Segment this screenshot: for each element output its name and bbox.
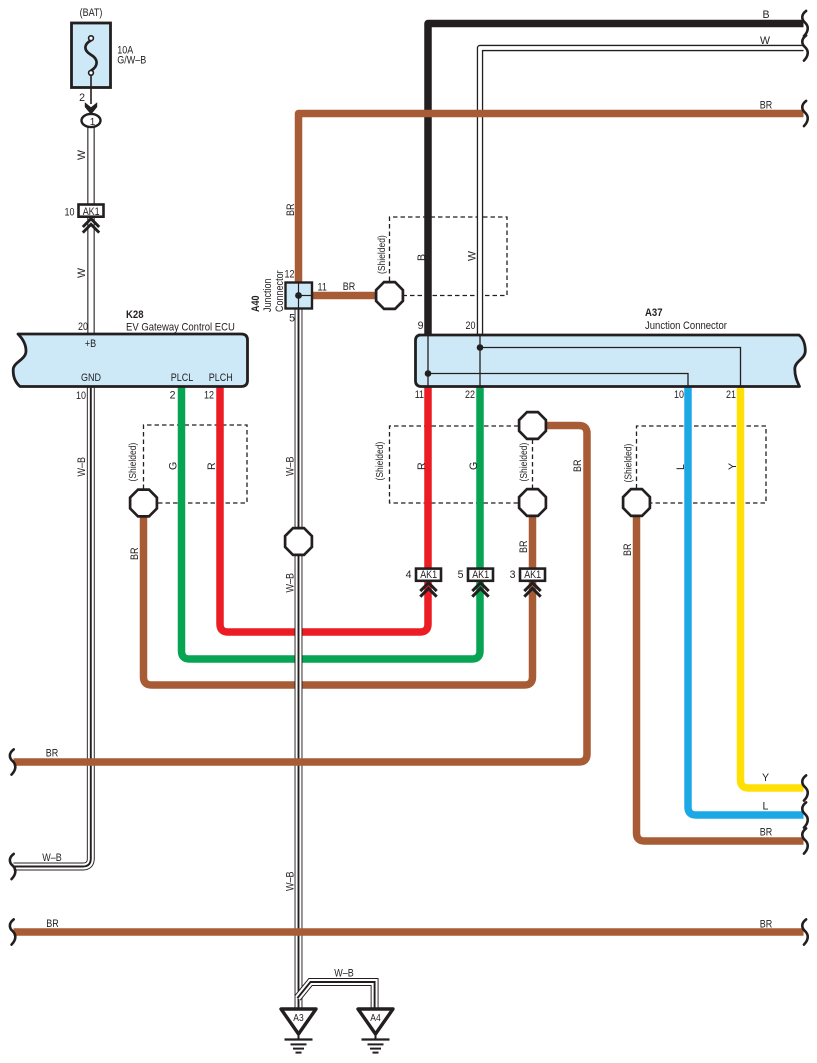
svg-text:2: 2 — [79, 92, 85, 104]
svg-text:W–B: W–B — [285, 872, 297, 892]
fuse (BAT) 10A — [72, 23, 111, 104]
svg-text:BR: BR — [760, 827, 773, 839]
svg-text:4: 4 — [406, 569, 412, 581]
octagon shield mid-bottom — [519, 489, 546, 516]
break left BR bottom — [10, 919, 15, 944]
svg-text:9: 9 — [418, 320, 424, 332]
break right B — [802, 11, 807, 36]
wire BR A40 to shield octagon — [312, 292, 378, 300]
break right W — [802, 35, 807, 60]
svg-text:10: 10 — [76, 390, 86, 402]
svg-text:EV Gateway Control ECU: EV Gateway Control ECU — [126, 322, 235, 334]
svg-text:(Shielded): (Shielded) — [624, 444, 635, 483]
break left W-B — [10, 854, 15, 879]
svg-text:(Shielded): (Shielded) — [377, 235, 388, 274]
shield dashed link between octagons — [532, 440, 534, 489]
shield box (Shielded) right under A37 — [637, 426, 767, 503]
svg-text:A4: A4 — [370, 1013, 381, 1024]
svg-text:10: 10 — [674, 389, 684, 401]
svg-text:AK1: AK1 — [83, 206, 100, 218]
svg-text:Junction Connector: Junction Connector — [645, 320, 727, 332]
svg-text:BR: BR — [343, 281, 356, 293]
octagon shield mid-top — [519, 412, 546, 439]
svg-text:G/W–B: G/W–B — [117, 55, 146, 67]
svg-text:W: W — [76, 150, 88, 160]
junction connector A40 — [286, 283, 313, 309]
wire B thick black top — [428, 24, 804, 336]
svg-text:+B: +B — [85, 338, 96, 350]
svg-text:5: 5 — [289, 313, 295, 325]
svg-text:20: 20 — [78, 321, 88, 333]
svg-text:L: L — [675, 464, 687, 470]
svg-text:K28: K28 — [126, 309, 144, 321]
connector 5 AK1 — [468, 569, 493, 597]
svg-text:1: 1 — [90, 117, 96, 128]
svg-text:22: 22 — [465, 389, 475, 401]
svg-text:A40: A40 — [250, 295, 262, 312]
svg-text:BR: BR — [129, 547, 141, 560]
octagon shield right — [623, 489, 650, 516]
svg-text:Junction: Junction — [262, 278, 274, 312]
ground A4 — [358, 1009, 393, 1053]
svg-text:BR: BR — [622, 543, 634, 556]
svg-text:W: W — [760, 35, 770, 47]
break right Y — [802, 775, 807, 800]
svg-text:(Shielded): (Shielded) — [519, 443, 530, 482]
svg-text:B: B — [762, 9, 769, 21]
svg-text:12: 12 — [204, 390, 214, 402]
wire BR from right edge to A40 — [299, 114, 804, 283]
svg-text:W–B: W–B — [285, 573, 297, 593]
svg-text:W: W — [467, 251, 479, 261]
A37 internal links — [428, 335, 741, 386]
junction connector A37 block — [416, 335, 806, 387]
wire BR loop octagon3 to octagon1 — [144, 515, 533, 685]
svg-text:BR: BR — [46, 748, 59, 760]
svg-text:B: B — [416, 254, 428, 261]
svg-text:BR: BR — [572, 459, 584, 472]
ellipse connector 1 — [82, 114, 101, 127]
svg-text:2: 2 — [170, 390, 176, 402]
svg-text:R: R — [416, 462, 428, 470]
shield box (Shielded) left under K28 — [144, 425, 248, 503]
arrow pin2 — [85, 102, 97, 114]
connector 10 AK1 — [79, 205, 104, 233]
svg-text:12: 12 — [285, 269, 295, 281]
svg-text:11: 11 — [318, 282, 327, 294]
svg-text:G: G — [168, 462, 180, 470]
svg-text:Y: Y — [762, 772, 769, 784]
svg-text:W–B: W–B — [285, 457, 297, 477]
break right BR mid — [802, 828, 807, 853]
svg-text:3: 3 — [510, 569, 516, 581]
svg-text:BR: BR — [518, 540, 530, 553]
ECU K28 block — [13, 334, 247, 387]
octagon shield left — [130, 490, 157, 517]
svg-text:Y: Y — [727, 463, 739, 470]
svg-text:BR: BR — [46, 918, 59, 930]
connector 3 AK1 — [520, 569, 545, 597]
svg-text:BR: BR — [760, 919, 773, 931]
wire Y yellow A37 pin21 to right edge — [741, 386, 804, 788]
node dot pin9 link — [425, 370, 432, 377]
wire W white double-line top — [480, 48, 804, 335]
wire BR octagon4 to right edge — [637, 515, 804, 841]
break right BR bottom — [802, 919, 807, 944]
svg-text:L: L — [763, 801, 769, 813]
svg-text:A37: A37 — [645, 307, 663, 319]
svg-text:20: 20 — [466, 320, 476, 332]
wire L blue A37 pin10 to right edge — [688, 386, 804, 815]
svg-text:GND: GND — [81, 372, 101, 384]
shield box (Shielded) top middle around B/W wires — [390, 217, 508, 296]
svg-text:BR: BR — [285, 203, 297, 216]
connector 4 AK1 — [416, 569, 441, 597]
svg-text:R: R — [206, 462, 218, 470]
break left BR — [10, 749, 15, 774]
octagon shield on W-B wire — [285, 528, 312, 555]
break right BR top — [802, 101, 807, 126]
break right L — [802, 802, 807, 827]
svg-text:AK1: AK1 — [472, 569, 489, 581]
wire W-B branch to ground A4 — [298, 982, 375, 1009]
wire W-B from K28 GND to left edge — [14, 387, 91, 867]
wire W-B from A40 pin5 down to ground A3 — [295, 309, 303, 1010]
wire G loop K28 PLCL to A37 pin22 — [182, 386, 481, 659]
octagon shield A40-BR — [376, 282, 403, 309]
svg-text:5: 5 — [458, 569, 464, 581]
wire BR bottom full width — [14, 928, 804, 936]
svg-text:PLCH: PLCH — [209, 372, 233, 384]
svg-text:(BAT): (BAT) — [80, 7, 103, 19]
svg-text:W–B: W–B — [334, 968, 354, 980]
svg-text:10: 10 — [65, 207, 75, 219]
svg-text:W–B: W–B — [42, 852, 62, 864]
svg-text:21: 21 — [726, 389, 736, 401]
shield box (Shielded) middle under A37 — [390, 426, 520, 503]
svg-text:W: W — [76, 268, 88, 278]
svg-text:(Shielded): (Shielded) — [375, 442, 386, 481]
wire R loop K28 PLCH to A37 pin11 — [220, 386, 428, 632]
ground A3 — [281, 1009, 316, 1053]
svg-text:(Shielded): (Shielded) — [128, 443, 139, 482]
svg-text:BR: BR — [760, 100, 773, 112]
wire W from fuse to K28 — [87, 127, 94, 334]
svg-text:AK1: AK1 — [420, 569, 437, 581]
svg-text:W–B: W–B — [76, 457, 88, 477]
svg-text:G: G — [468, 462, 480, 470]
svg-text:AK1: AK1 — [524, 569, 541, 581]
wire BR octagon2 to left-edge horizontal — [14, 426, 588, 763]
svg-text:PLCL: PLCL — [171, 372, 194, 384]
svg-text:11: 11 — [415, 389, 424, 401]
svg-text:A3: A3 — [293, 1013, 304, 1024]
node dot pin20 link — [477, 344, 484, 351]
